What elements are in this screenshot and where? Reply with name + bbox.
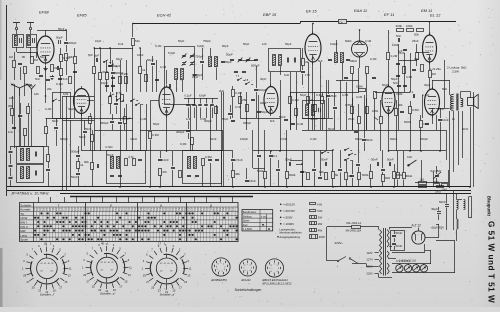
input tuned circuit L2 [27,35,37,48]
svg-text:60pF: 60pF [116,57,123,61]
svg-text:AM 2400,15A: AM 2400,15A [346,228,362,232]
svg-text:300pF: 300pF [100,121,109,125]
svg-text:5nF: 5nF [270,119,275,123]
svg-text:50nF: 50nF [285,158,292,162]
svg-text:f 8: f 8 [245,78,249,82]
svg-text:50k: 50k [414,33,419,37]
cap 600pF [254,89,258,91]
svg-text:11: 11 [189,266,192,270]
svg-text:50pF: 50pF [243,42,250,46]
svg-text:4M: 4M [348,174,353,178]
mid-left extra parts [83,131,87,133]
svg-text:220V~: 220V~ [335,241,344,245]
svg-text:5: 5 [274,272,275,274]
svg-text:500pF: 500pF [60,137,68,141]
svg-text:1nF: 1nF [8,130,13,134]
svg-text:50nF: 50nF [396,231,403,235]
cap 50nF right col [445,204,449,206]
svg-text:9 kHz: 9 kHz [261,216,267,218]
svg-text:50nF: 50nF [79,135,86,139]
resistor 0,1M osc [232,90,235,97]
ground EF98 [45,66,47,68]
svg-text:220V: 220V [367,272,373,276]
switch dial Schalter „f“ [22,243,72,294]
svg-text:178: 178 [305,73,310,77]
tube V7 EF11 [382,84,395,116]
svg-text:13: 13 [187,274,190,278]
svg-text:300pF: 300pF [310,117,318,121]
svg-text:1nF: 1nF [398,49,403,53]
svg-text:8,2k: 8,2k [118,42,124,46]
svg-text:300pF: 300pF [176,130,185,134]
wire IF to EBF grid [280,66,282,75]
svg-text:7: 7 [269,268,270,270]
svg-text:0,3M: 0,3M [152,133,159,137]
svg-text:15: 15 [125,279,128,283]
svg-text:127V: 127V [367,258,373,262]
cluster EF11 extras [351,107,354,114]
svg-text:50pF: 50pF [40,55,47,59]
svg-text:0,1M: 0,1M [370,57,377,61]
rectifier AZ12 [412,228,425,245]
IF can EBF input [269,49,301,72]
svg-text:1W: 1W [318,216,323,220]
svg-text:≈ 697/6V: ≈ 697/6V [283,209,295,213]
wire right col [473,92,475,187]
switch f1 [52,100,53,101]
svg-text:Schalter „a“: Schalter „a“ [160,293,177,297]
wire h183 [415,182,449,184]
svg-text:8: 8 [244,265,245,267]
svg-text:0,1M: 0,1M [235,91,242,95]
svg-text:0,1M: 0,1M [155,44,162,48]
svg-text:5k: 5k [335,173,339,177]
svg-text:Ausgangsleistung: Ausgangsleistung [280,235,301,239]
svg-text:30pF: 30pF [102,70,109,74]
svg-text:EF98(EF85): EF98(EF85) [212,278,227,282]
svg-text:5nF: 5nF [396,34,401,38]
loop wire right [468,197,470,218]
svg-text:SSL 2024,1A: SSL 2024,1A [346,221,361,225]
svg-text:0,1M: 0,1M [310,137,317,141]
wire bottom bus 1 [7,186,471,188]
svg-text:60kΩ: 60kΩ [390,137,397,141]
svg-text:4: 4 [250,270,251,272]
IF can A [107,151,146,184]
svg-text:0,2M: 0,2M [356,95,363,99]
svg-text:4: 4 [277,271,278,273]
coupling caps right [398,38,400,42]
svg-text:0,1μF: 0,1μF [422,93,430,97]
svg-text:0,1M: 0,1M [63,56,70,60]
svg-text:5nF: 5nF [318,59,323,63]
svg-text:47k: 47k [162,170,167,174]
detector resistors [359,89,366,92]
svg-text:50nF: 50nF [462,127,469,131]
boost cap [438,119,442,121]
svg-text:1kΩ: 1kΩ [420,178,425,182]
svg-text:27: 27 [87,279,90,283]
svg-text:500pF: 500pF [420,137,428,141]
svg-text:5nF: 5nF [35,77,40,81]
field coil choke [457,200,459,202]
svg-text:11: 11 [69,266,72,270]
svg-text:ECH 42: ECH 42 [157,13,172,18]
svg-text:3: 3 [224,266,225,268]
EM11 wires [429,22,431,35]
svg-text:EF 11: EF 11 [384,12,394,17]
svg-text:10pF: 10pF [95,39,102,43]
svg-text:1: 1 [247,264,248,266]
table tick connectors [38,197,40,203]
svg-text:2W: 2W [318,222,323,226]
svg-text:1k: 1k [142,68,146,72]
cap row under ECH42 [184,98,218,100]
svg-text:JF=473kHz u. 10,7MHz: JF=473kHz u. 10,7MHz [10,192,49,196]
IF out parts [47,155,50,162]
resistor row top right [397,29,404,32]
svg-text:0,3M: 0,3M [342,93,349,97]
resistor row lower [264,172,267,179]
svg-text:2,5nF: 2,5nF [235,158,243,162]
svg-text:17: 17 [179,285,182,289]
resistor cathode [51,65,54,72]
svg-text:g: g [210,203,212,207]
svg-text:5kΩ: 5kΩ [442,87,447,91]
svg-text:100pF: 100pF [240,137,248,141]
socket octal [265,259,283,277]
svg-text:50nF: 50nF [279,115,286,119]
svg-text:≈ 500V: ≈ 500V [283,216,293,220]
wire top HT bus [133,23,300,25]
svg-text:250Ω: 250Ω [435,191,441,194]
svg-text:0,3M: 0,3M [406,75,413,79]
svg-text:A Z 12: A Z 12 [411,224,421,228]
bottom-right corner parts [397,173,400,179]
svg-text:50pF: 50pF [107,153,114,157]
AZ12 wires [425,237,439,239]
double vertical wires [221,92,223,187]
svg-text:0,1M: 0,1M [140,117,147,121]
left caps column [9,151,13,153]
svg-text:EBF 15: EBF 15 [263,12,277,17]
svg-text:51k: 51k [135,39,140,43]
rectifier box [391,231,405,251]
wire EF98 anode up [45,30,47,34]
svg-text:600pF: 600pF [258,88,267,92]
svg-text:EF85: EF85 [77,13,87,18]
long vertical pair [62,120,64,191]
osc section parts [200,61,204,63]
frame left border [6,5,8,196]
svg-text:50nF: 50nF [387,158,394,162]
svg-text:41Ω: 41Ω [407,155,412,159]
svg-text:50pF: 50pF [147,58,154,62]
dipole antenna symbol [11,84,28,103]
svg-text:0,1μF: 0,1μF [185,94,192,98]
fuse [352,226,361,229]
svg-text:EL 12: EL 12 [430,13,441,18]
svg-text:Dr: Dr [340,20,343,24]
svg-text:30pF: 30pF [260,77,267,81]
speaker top loop [460,92,462,99]
EAA parts [351,67,354,74]
svg-text:20k: 20k [47,87,52,91]
svg-text:0,1M: 0,1M [365,39,372,43]
speaker [468,94,479,108]
switch f2 [130,100,131,101]
cluster mid switch extras [105,85,109,87]
svg-text:0,1M: 0,1M [160,65,167,69]
power transformer [380,228,390,276]
svg-text:6: 6 [244,270,245,272]
svg-text:0,3M: 0,3M [205,155,212,159]
svg-text:2: 2 [277,265,278,267]
choke Dr [339,20,347,24]
svg-text:110V: 110V [367,251,373,255]
svg-text:66kΩ: 66kΩ [350,59,357,63]
svg-text:EF98: EF98 [39,10,49,15]
svg-text:0,1M: 0,1M [292,98,299,102]
svg-text:0,1M: 0,1M [56,82,63,86]
svg-text:25a: 25a [436,67,441,71]
svg-text:17: 17 [119,285,122,289]
row y170 extras [257,155,261,157]
svg-text:1: 1 [220,263,221,265]
svg-text:60pF: 60pF [260,101,267,105]
svg-text:50pF: 50pF [285,42,292,46]
svg-text:Blaupunkt: Blaupunkt [487,196,492,217]
svg-text:25nF: 25nF [438,107,445,111]
switch dial Schalter „a“ [142,243,192,294]
svg-text:¼W: ¼W [317,203,323,207]
psu frame wires [430,250,432,264]
svg-text:60kΩ: 60kΩ [345,39,352,43]
svg-text:15: 15 [64,280,67,284]
paper left edge shade [0,248,3,307]
svg-text:29: 29 [83,273,86,277]
can coils [175,69,178,80]
svg-text:5nF: 5nF [393,81,398,85]
svg-text:200pF: 200pF [68,41,77,45]
svg-text:10W: 10W [319,235,325,239]
TA switch [408,160,417,166]
2nd IF can [277,41,278,42]
svg-text:50pF: 50pF [222,117,229,121]
svg-text:3: 3 [251,268,252,270]
svg-text:60k: 60k [398,103,403,107]
resistor input [13,61,16,68]
svg-text:1kΩ: 1kΩ [284,73,289,77]
svg-text:Sockelschaltungen: Sockelschaltungen [235,288,262,292]
svg-text:EF11,EM11,EL12,AZ12: EF11,EM11,EL12,AZ12 [263,282,293,286]
svg-text:50nF: 50nF [321,158,328,162]
antenna symbol 2 [28,84,36,103]
res 1k horizontal [419,182,427,185]
svg-text:25k: 25k [242,98,247,102]
EF11 wires [388,60,390,86]
EL12 cathode [420,121,423,128]
svg-text:500k: 500k [362,173,369,177]
svg-text:500Ω: 500Ω [404,120,411,124]
tube V5 EBF15 [305,32,321,65]
volume pot [380,117,383,124]
svg-text:0,1M: 0,1M [121,72,128,76]
wire horizontals [37,30,46,32]
svg-text:15nF: 15nF [249,179,256,183]
cap 800pF [108,65,112,67]
wire EAA [359,30,361,38]
svg-text:29: 29 [143,274,146,278]
svg-text:50nF: 50nF [328,127,335,131]
wires lower mid [264,160,266,172]
right col wires [453,191,455,231]
svg-text:10nF: 10nF [162,158,169,162]
switch dial Schalter „e“ [82,242,132,293]
svg-text:29: 29 [23,274,26,278]
svg-text:50nF: 50nF [371,158,378,162]
svg-text:0,1M: 0,1M [45,107,52,111]
svg-text:50pF: 50pF [300,93,307,97]
svg-text:0,2M: 0,2M [391,54,398,58]
svg-text:60: 60 [22,55,26,59]
svg-text:9: 9 [217,264,218,266]
svg-text:30k: 30k [414,57,419,61]
anode IF can top [328,59,332,61]
wire ant to coils [16,30,18,34]
svg-text:30pF: 30pF [424,83,431,87]
svg-text:a: a [160,203,162,207]
IF block box lower [17,165,44,183]
padder caps [234,71,238,73]
svg-text:G 51 W und T 51 W: G 51 W und T 51 W [487,221,496,303]
svg-text:0,1M: 0,1M [235,105,242,109]
osc coil can box [165,47,195,105]
svg-text:0,5M: 0,5M [412,108,419,112]
socket EF98 EF85 [212,258,230,276]
svg-text:50nF: 50nF [85,127,92,131]
EF85 coupling [96,58,98,62]
svg-text:≈ 65/12V: ≈ 65/12V [283,203,295,207]
svg-text:1: 1 [274,264,275,266]
svg-text:240: 240 [9,96,14,100]
IF block box upper [17,147,44,164]
mid small parts [171,167,175,169]
tube V2 EF85 [74,86,90,116]
right of can B parts [231,159,235,161]
svg-text:10nF: 10nF [442,118,449,122]
cap 800pF osc [111,72,115,74]
svg-text:40μF: 40μF [431,207,438,211]
selenium rectifiers [392,264,455,273]
svg-text:5: 5 [222,271,223,273]
svg-text:50nF: 50nF [366,138,373,142]
svg-text:49k: 49k [235,172,240,176]
svg-text:½W: ½W [317,209,323,213]
svg-text:8: 8 [216,266,217,268]
svg-text:50kΩ: 50kΩ [355,137,362,141]
svg-text:2,5W: 2,5W [452,70,459,74]
cluster EBF extras [289,97,292,104]
svg-text:1,2k: 1,2k [430,67,436,71]
output transformer [450,94,462,111]
svg-text:50pF: 50pF [382,83,389,87]
contact table [20,203,239,242]
IF can B [183,151,222,184]
screen cap 200pF [64,42,68,44]
svg-text:2,5nF: 2,5nF [280,137,288,141]
mains fuse wire [327,226,352,228]
svg-text:1M: 1M [34,58,39,62]
svg-text:50nF: 50nF [439,200,446,204]
svg-text:0,5M: 0,5M [356,85,363,89]
parts right of dbl wires [228,113,232,115]
tube V3 ECH42 [159,85,174,118]
svg-text:200k: 200k [396,24,403,28]
svg-text:5pF: 5pF [88,53,93,57]
wire coils to tube [16,47,18,52]
svg-text:7: 7 [243,268,244,270]
EM11 left parts [416,53,419,60]
svg-text:6,8pF: 6,8pF [197,44,205,48]
tube V4 EF15 [264,84,278,116]
wires EF85 out [81,114,83,152]
svg-text:8: 8 [271,265,272,267]
svg-text:50pF: 50pF [56,36,63,40]
junction dots [132,23,133,24]
FM unit box [53,93,71,119]
svg-text:50nF: 50nF [52,119,59,123]
svg-text:600pF: 600pF [251,64,260,68]
EL12 anode wire [432,80,434,89]
wires audio down [449,80,451,95]
svg-text:100k: 100k [406,24,413,28]
socket ECH42 [239,259,256,276]
input tuned circuit L1 [13,35,24,48]
svg-text:4W: 4W [318,229,323,233]
svg-text:0,1: 0,1 [409,90,414,94]
svg-text:27: 27 [146,280,149,284]
svg-text:EF 15: EF 15 [306,9,317,14]
osc resistor 51k [132,24,134,38]
svg-text:+50μF,450V: +50μF,450V [431,227,445,230]
svg-text:750pF: 750pF [203,39,211,43]
cluster under EF85-ECH42 gap [109,97,112,104]
svg-text:4: 4 [224,269,225,271]
svg-text:4,7k: 4,7k [116,91,122,95]
svg-text:80pF: 80pF [222,44,229,48]
svg-text:50nF: 50nF [71,175,78,179]
trimmers in can [182,55,186,57]
cap 40uF [437,211,441,213]
tube V8 EM11 [423,33,437,65]
EF11 cathode parts [395,109,398,116]
svg-text:1nF: 1nF [186,117,191,121]
svg-text:40: 40 [101,242,105,246]
svg-text:0,5M: 0,5M [396,92,403,96]
svg-text:ECH42: ECH42 [242,278,251,282]
svg-text:6: 6 [219,271,220,273]
EBF15 wires [312,24,314,35]
wire bottom bus 2 [7,190,471,192]
ECH42 wires [166,70,168,84]
svg-text:15: 15 [184,280,187,284]
cluster EM extras [397,85,401,87]
wire bottom bus 3 [60,193,471,195]
svg-text:25nF: 25nF [412,39,419,43]
switch contacts mid [109,95,110,96]
svg-text:Spule: Spule [20,238,28,242]
